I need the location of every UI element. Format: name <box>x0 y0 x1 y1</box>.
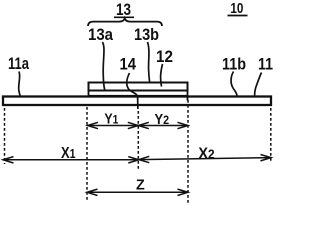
layer 13 (upper rectangle) <box>89 83 188 91</box>
label 10 <box>228 0 248 17</box>
svg-text:14: 14 <box>120 56 137 74</box>
svg-text:Y2: Y2 <box>155 112 170 128</box>
svg-text:11a: 11a <box>8 54 29 73</box>
dimension Y1 <box>88 122 139 128</box>
label 13 <box>114 1 134 19</box>
leader 11 <box>255 73 262 96</box>
dimension X2 <box>139 155 271 163</box>
svg-text:13: 13 <box>116 1 131 19</box>
svg-text:13a: 13a <box>88 26 114 44</box>
layer 12 (thin rectangle under 13) <box>89 91 188 96</box>
extension line x=138.5 <box>137 111 139 170</box>
leader 13a <box>103 42 106 91</box>
svg-text:X2: X2 <box>198 146 214 163</box>
extension line x=87 <box>86 107 88 202</box>
svg-text:X1: X1 <box>61 145 76 162</box>
dimension Y2 <box>138 122 188 128</box>
svg-text:13b: 13b <box>134 26 159 44</box>
leader 11a <box>19 72 21 98</box>
extension line right edge <box>270 108 272 163</box>
extension line left edge <box>4 108 6 164</box>
dimension X1 <box>3 157 139 163</box>
svg-text:11: 11 <box>258 55 273 74</box>
extension line x=188 <box>187 100 189 203</box>
svg-text:11b: 11b <box>222 55 246 74</box>
dimension Z <box>87 189 188 195</box>
svg-text:Y1: Y1 <box>104 112 118 128</box>
leader 13b <box>148 42 150 82</box>
right edge stub of layer 12 <box>187 96 189 101</box>
brace under 13 <box>88 18 162 26</box>
svg-text:Z: Z <box>136 178 145 194</box>
svg-text:10: 10 <box>230 0 243 17</box>
leader 14 <box>127 73 138 109</box>
leader 11b <box>231 72 237 96</box>
svg-text:12: 12 <box>156 48 173 66</box>
substrate 11 (base film bar) <box>3 97 271 106</box>
leader 12 <box>161 64 163 87</box>
